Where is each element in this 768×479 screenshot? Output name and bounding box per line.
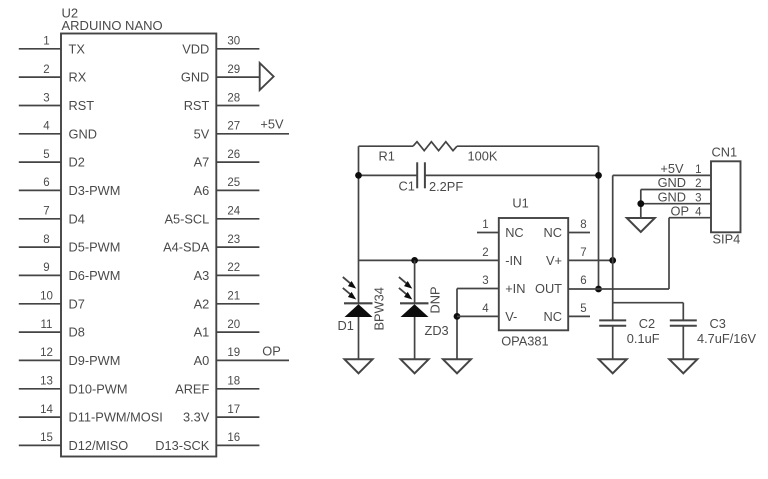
junction at ZD3 top xyxy=(411,257,418,264)
wire C3 top vertical xyxy=(682,303,684,321)
wire C3 to ground xyxy=(682,326,684,360)
svg-text:10: 10 xyxy=(40,291,53,303)
svg-text:D2: D2 xyxy=(69,155,85,170)
svg-text:A2: A2 xyxy=(194,296,210,311)
U1 right pin label V+ xyxy=(546,253,562,268)
label ZD3 xyxy=(425,323,449,338)
svg-text:4: 4 xyxy=(43,121,50,133)
U2 pin 21 wire and label (A2) xyxy=(194,291,260,312)
svg-text:25: 25 xyxy=(227,177,240,189)
svg-text:5: 5 xyxy=(580,303,586,315)
net label +5V at CN1 pin 1 xyxy=(660,161,684,176)
U2 pin 20 wire and label (A1) xyxy=(194,319,260,340)
ground below C3 xyxy=(669,359,697,373)
svg-text:19: 19 xyxy=(227,347,240,359)
svg-text:4.7uF/16V: 4.7uF/16V xyxy=(697,331,757,346)
CN1 pin 1 number xyxy=(695,164,701,176)
svg-text:C2: C2 xyxy=(639,316,655,331)
svg-text:GND: GND xyxy=(69,126,97,141)
wire OUT vertical to CN1 pin4 xyxy=(668,218,670,289)
U2 pin 12 wire and label (D9-PWM) xyxy=(19,347,121,368)
CN1 pin 4 number xyxy=(695,206,702,218)
svg-text:+5V: +5V xyxy=(260,116,284,131)
U2 pin 27 wire and label (5V) xyxy=(194,121,289,142)
svg-text:AREF: AREF xyxy=(175,381,209,396)
svg-text:7: 7 xyxy=(580,247,586,259)
svg-text:D8: D8 xyxy=(69,325,85,340)
ground below CN1 GND pins xyxy=(627,218,655,232)
net label GND at CN1 pin 2 xyxy=(658,175,686,190)
svg-text:D6-PWM: D6-PWM xyxy=(69,268,121,283)
svg-text:6: 6 xyxy=(43,177,49,189)
U1 pin 2 number xyxy=(482,247,488,259)
svg-text:+5V: +5V xyxy=(660,161,684,176)
IC U2 ARDUINO NANO reference label xyxy=(62,6,79,21)
svg-text:NC: NC xyxy=(505,225,523,240)
ground below D1 xyxy=(345,359,373,373)
U1 right pin label NC xyxy=(544,309,562,324)
wire CN1 GND vertical xyxy=(640,190,642,219)
ground below ZD3 xyxy=(401,359,429,373)
U1 pin 6 number xyxy=(580,275,586,287)
U1 left pin label -IN xyxy=(505,253,522,268)
svg-text:11: 11 xyxy=(41,319,53,331)
label C2 xyxy=(639,316,655,331)
svg-text:A0: A0 xyxy=(194,353,210,368)
svg-text:D10-PWM: D10-PWM xyxy=(69,381,128,396)
svg-text:3.3V: 3.3V xyxy=(183,410,210,425)
label C1 xyxy=(399,178,415,193)
capacitor C3 xyxy=(670,320,697,325)
svg-text:2: 2 xyxy=(695,178,701,190)
resistor R1 xyxy=(413,142,457,151)
wire C1 right segment xyxy=(425,174,599,176)
CN1 pin 3 wire and number xyxy=(641,192,711,204)
wire D1 to ground xyxy=(358,317,360,359)
svg-text:2: 2 xyxy=(482,247,488,259)
wire V+ pin7 horizontal xyxy=(568,259,613,261)
svg-text:5V: 5V xyxy=(194,126,210,141)
svg-text:23: 23 xyxy=(227,234,240,246)
U2 pin 5 wire and label (D2) xyxy=(19,149,85,170)
net label OP at U2 pin 19 xyxy=(262,343,281,358)
IC U2 ARDUINO NANO name label xyxy=(62,18,163,33)
U2 pin 6 wire and label (D3-PWM) xyxy=(19,177,121,198)
op-amp U1 body xyxy=(499,218,568,330)
net label OP at CN1 pin 4 xyxy=(671,203,690,218)
svg-text:R1: R1 xyxy=(379,149,395,164)
svg-text:GND: GND xyxy=(658,175,686,190)
svg-text:22: 22 xyxy=(227,262,240,274)
svg-text:A4-SDA: A4-SDA xyxy=(163,240,210,255)
wire feedback right vertical xyxy=(598,146,600,289)
svg-text:7: 7 xyxy=(43,206,49,218)
svg-text:RST: RST xyxy=(69,98,95,113)
svg-text:+IN: +IN xyxy=(505,281,525,296)
svg-text:1: 1 xyxy=(43,36,49,48)
svg-text:27: 27 xyxy=(227,121,240,133)
U1 pin 8 stub (NC) xyxy=(568,219,590,233)
wire +5V rail vertical xyxy=(612,175,614,320)
U2 pin 16 wire and label (D13-SCK) xyxy=(155,432,259,453)
U2 pin 26 wire and label (A7) xyxy=(194,149,260,170)
wire ZD3 top vertical xyxy=(414,260,416,303)
svg-text:2: 2 xyxy=(43,64,49,76)
svg-text:GND: GND xyxy=(658,189,686,204)
svg-text:1: 1 xyxy=(695,164,701,176)
svg-text:26: 26 xyxy=(227,149,240,161)
connector CN1 reference label xyxy=(712,145,738,160)
svg-text:D4: D4 xyxy=(69,211,85,226)
svg-text:15: 15 xyxy=(40,432,53,444)
svg-text:OUT: OUT xyxy=(535,281,562,296)
U2 pin 29 off-page connector triangle xyxy=(260,63,274,90)
svg-text:A1: A1 xyxy=(194,325,210,340)
wire +IN horizontal xyxy=(457,288,499,290)
U2 pin 30 wire and label (VDD) xyxy=(182,36,259,57)
svg-text:29: 29 xyxy=(227,64,240,76)
photodiode D1 xyxy=(343,277,373,317)
svg-text:D5-PWM: D5-PWM xyxy=(69,240,121,255)
svg-text:16: 16 xyxy=(227,432,240,444)
svg-text:D12/MISO: D12/MISO xyxy=(69,438,129,453)
svg-text:20: 20 xyxy=(227,319,240,331)
svg-text:A5-SCL: A5-SCL xyxy=(164,211,209,226)
svg-text:C3: C3 xyxy=(710,316,726,331)
wire OUT to CN1 pin4 horizontal xyxy=(669,217,711,219)
svg-text:NC: NC xyxy=(544,309,562,324)
wire -IN node horizontal xyxy=(359,259,499,261)
svg-text:OP: OP xyxy=(671,203,690,218)
junction at OUT node xyxy=(595,286,602,293)
svg-text:GND: GND xyxy=(181,70,209,85)
wire C2 to ground xyxy=(612,326,614,360)
value 0.1uF of C2 xyxy=(627,331,660,346)
svg-text:100K: 100K xyxy=(468,149,498,164)
svg-text:13: 13 xyxy=(40,376,53,388)
svg-text:17: 17 xyxy=(227,404,240,416)
svg-text:A3: A3 xyxy=(194,268,210,283)
svg-text:A6: A6 xyxy=(194,183,210,198)
U2 pin 7 wire and label (D4) xyxy=(19,206,85,227)
U2 pin 14 wire and label (D11-PWM/MOSI) xyxy=(19,404,163,425)
value DNP of ZD3 xyxy=(428,286,443,313)
U1 pin 7 number xyxy=(580,247,586,259)
svg-text:12: 12 xyxy=(40,347,53,359)
value 2.2PF of C1 xyxy=(429,179,463,194)
U1 pin 1 stub (NC) xyxy=(477,219,499,233)
svg-text:CN1: CN1 xyxy=(712,145,738,160)
svg-text:8: 8 xyxy=(580,219,586,231)
U2 pin 8 wire and label (D5-PWM) xyxy=(19,234,121,255)
U2 pin 29 wire and label (GND) xyxy=(181,64,260,85)
svg-text:2.2PF: 2.2PF xyxy=(429,179,463,194)
svg-text:NC: NC xyxy=(544,225,562,240)
U1 pin 4 number xyxy=(482,303,489,315)
svg-text:SIP4: SIP4 xyxy=(713,232,741,247)
svg-text:BPW34: BPW34 xyxy=(372,287,387,330)
U2 pin 9 wire and label (D6-PWM) xyxy=(19,262,121,283)
svg-text:U1: U1 xyxy=(512,196,528,211)
svg-text:1: 1 xyxy=(482,219,488,231)
IC U2 body xyxy=(61,34,216,457)
svg-text:OPA381: OPA381 xyxy=(501,334,548,349)
junction at C1 right xyxy=(595,172,602,179)
label R1 xyxy=(379,149,395,164)
svg-text:D9-PWM: D9-PWM xyxy=(69,353,121,368)
svg-text:21: 21 xyxy=(227,291,240,303)
svg-text:RX: RX xyxy=(69,70,87,85)
capacitor C2 xyxy=(599,320,626,325)
label D1 xyxy=(338,318,354,333)
CN1 pin 2 wire and number xyxy=(641,178,711,190)
U1 left pin label +IN xyxy=(505,281,525,296)
svg-text:3: 3 xyxy=(695,192,701,204)
U2 pin 4 wire and label (GND) xyxy=(19,121,97,142)
svg-text:OP: OP xyxy=(262,343,281,358)
svg-text:8: 8 xyxy=(43,234,49,246)
U2 pin 10 wire and label (D7) xyxy=(19,291,85,312)
value BPW34 of D1 xyxy=(372,287,387,330)
svg-text:3: 3 xyxy=(43,92,49,104)
junction at CN1 GND xyxy=(637,200,644,207)
junction at V- node xyxy=(454,313,461,320)
U2 pin 28 wire and label (RST) xyxy=(184,92,260,113)
svg-text:V+: V+ xyxy=(546,253,562,268)
connector CN1 body xyxy=(711,161,741,232)
U2 pin 18 wire and label (AREF) xyxy=(175,376,259,397)
wire OUT pin6 horizontal xyxy=(568,288,669,290)
U2 pin 22 wire and label (A3) xyxy=(194,262,260,283)
svg-text:VDD: VDD xyxy=(182,41,209,56)
svg-text:5: 5 xyxy=(43,149,49,161)
svg-text:18: 18 xyxy=(227,376,240,388)
value 100K of R1 xyxy=(468,149,498,164)
photodiode ZD3 xyxy=(399,277,429,317)
net label +5V at U2 pin 27 xyxy=(260,116,284,131)
U2 pin 23 wire and label (A4-SDA) xyxy=(163,234,259,255)
U2 pin 15 wire and label (D12/MISO) xyxy=(19,432,128,453)
svg-text:D7: D7 xyxy=(69,296,85,311)
connector CN1 type SIP4 xyxy=(713,232,741,247)
svg-text:DNP: DNP xyxy=(428,286,443,313)
svg-text:0.1uF: 0.1uF xyxy=(627,331,660,346)
label C3 xyxy=(710,316,726,331)
wire rail branch to C3 xyxy=(613,302,684,304)
ground below U1 pin 4 xyxy=(443,359,471,373)
svg-text:9: 9 xyxy=(43,262,49,274)
U2 pin 2 wire and label (RX) xyxy=(19,64,87,85)
svg-text:ARDUINO NANO: ARDUINO NANO xyxy=(62,18,163,33)
svg-text:4: 4 xyxy=(695,206,702,218)
U2 pin 13 wire and label (D10-PWM) xyxy=(19,376,128,397)
svg-text:C1: C1 xyxy=(399,178,415,193)
svg-text:30: 30 xyxy=(227,36,240,48)
svg-text:D3-PWM: D3-PWM xyxy=(69,183,121,198)
wire +5V rail to CN1 pin1 xyxy=(613,174,711,176)
U2 pin 24 wire and label (A5-SCL) xyxy=(164,206,259,227)
ground below C2 xyxy=(599,359,627,373)
svg-text:V-: V- xyxy=(505,309,517,324)
svg-text:A7: A7 xyxy=(194,155,210,170)
U1 right pin label NC xyxy=(544,225,562,240)
svg-text:TX: TX xyxy=(69,41,86,56)
svg-text:D11-PWM/MOSI: D11-PWM/MOSI xyxy=(69,410,163,425)
net label GND at CN1 pin 3 xyxy=(658,189,686,204)
U1 pin 5 stub (NC) xyxy=(568,303,590,317)
junction at C1 left xyxy=(355,172,362,179)
U2 pin 11 wire and label (D8) xyxy=(19,319,85,340)
U1 pin 3 number xyxy=(482,275,488,287)
wire top feedback right segment xyxy=(457,145,599,147)
U1 left pin label V- xyxy=(505,309,517,324)
op-amp U1 reference label xyxy=(512,196,528,211)
U1 left pin label NC xyxy=(505,225,523,240)
svg-text:D13-SCK: D13-SCK xyxy=(155,438,210,453)
svg-text:D1: D1 xyxy=(338,318,354,333)
svg-text:3: 3 xyxy=(482,275,488,287)
svg-text:24: 24 xyxy=(227,206,240,218)
U2 pin 17 wire and label (3.3V) xyxy=(183,404,259,425)
svg-text:28: 28 xyxy=(227,92,240,104)
U2 pin 19 wire and label (A0) xyxy=(194,347,289,368)
wire V- horizontal xyxy=(457,315,499,317)
capacitor C1 xyxy=(417,162,425,188)
U2 pin 25 wire and label (A6) xyxy=(194,177,260,198)
svg-text:RST: RST xyxy=(184,98,210,113)
wire feedback left vertical xyxy=(358,146,360,303)
svg-text:-IN: -IN xyxy=(505,253,522,268)
op-amp U1 part number OPA381 xyxy=(501,334,548,349)
wire ZD3 to ground xyxy=(414,317,416,359)
wire C1 left segment xyxy=(359,174,418,176)
wire +IN to V- vertical xyxy=(456,289,458,360)
svg-text:4: 4 xyxy=(482,303,489,315)
U2 pin 1 wire and label (TX) xyxy=(19,36,86,57)
U2 pin 3 wire and label (RST) xyxy=(19,92,94,113)
value 4.7uF/16V of C3 xyxy=(697,331,757,346)
svg-text:14: 14 xyxy=(40,404,53,416)
wire top feedback left segment xyxy=(359,145,414,147)
junction at V+ rail xyxy=(609,257,616,264)
U1 right pin label OUT xyxy=(535,281,562,296)
svg-text:6: 6 xyxy=(580,275,586,287)
svg-text:ZD3: ZD3 xyxy=(425,323,449,338)
